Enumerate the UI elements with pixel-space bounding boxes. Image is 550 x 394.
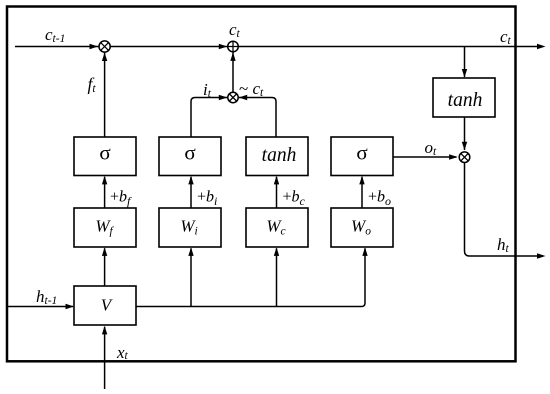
svg-text:σ: σ xyxy=(356,141,367,165)
svg-text:tanh: tanh xyxy=(448,90,483,111)
svg-text:σ: σ xyxy=(184,141,195,165)
svg-text:σ: σ xyxy=(99,141,110,165)
svg-text:tanh: tanh xyxy=(262,145,297,166)
